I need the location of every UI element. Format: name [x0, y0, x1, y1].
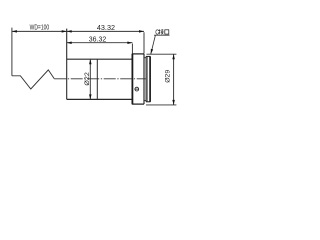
object plane line (left vertical) — [11, 28, 13, 76]
flange right edge — [143, 54, 145, 104]
neck groove top — [144, 57, 146, 59]
dimension D29 line — [173, 54, 175, 105]
set screw on flange — [135, 87, 139, 91]
svg-text:WD=100: WD=100 — [30, 23, 50, 32]
arrow D22 top — [89, 59, 92, 64]
dimension D29 extension bottom — [146, 104, 176, 106]
break line zigzag — [12, 70, 54, 89]
leader arrowhead — [151, 49, 153, 54]
arrow 36.32 left — [67, 41, 72, 44]
arrow D29 top — [172, 54, 175, 59]
svg-text:43.32: 43.32 — [97, 23, 115, 32]
barrel section line — [96, 59, 98, 99]
svg-text:36.32: 36.32 — [89, 35, 107, 44]
extension line for 43.32 at flange rear face — [143, 32, 145, 53]
arrow 43.32 right — [139, 30, 144, 32]
thread top edge — [146, 55, 150, 57]
leader line — [151, 35, 156, 54]
arrow D22 bottom — [89, 94, 92, 99]
dimension WD=100 line — [12, 30, 67, 32]
arrow 36.32 right — [127, 41, 132, 44]
label C-mount: glyph kou (open square) — [165, 30, 169, 34]
thread relief line — [148, 56, 150, 101]
leader underline — [154, 34, 170, 36]
thread end face — [149, 56, 151, 101]
barrel bottom edge — [67, 98, 133, 100]
barrel top edge — [67, 58, 133, 60]
dimension 43.32 line — [67, 30, 144, 32]
centerline — [54, 78, 145, 80]
arrow D29 bottom — [172, 100, 175, 105]
svg-text:Ø29: Ø29 — [164, 70, 171, 83]
set screw slot — [135, 88, 139, 90]
arrow 43.32 left — [67, 30, 72, 32]
arrow WD left — [12, 30, 17, 33]
arrow WD right — [62, 30, 67, 33]
thread minor line — [146, 56, 148, 101]
dimension D29 extension top — [147, 53, 177, 55]
thread bottom edge — [146, 101, 150, 103]
dimension 36.32 line — [67, 42, 133, 44]
thread section left edge — [145, 56, 147, 101]
neck groove bottom — [144, 100, 146, 102]
svg-text:Ø22: Ø22 — [84, 72, 91, 86]
dimension D22 line — [89, 59, 91, 99]
flange left edge — [131, 54, 133, 104]
lens front face with extension line — [66, 29, 68, 100]
extension line for 36.32 at flange front face — [131, 44, 133, 54]
flange bottom edge — [132, 103, 144, 105]
label C-mount: glyph jie (hand-drawn) — [158, 29, 163, 34]
flange top edge — [132, 53, 144, 55]
